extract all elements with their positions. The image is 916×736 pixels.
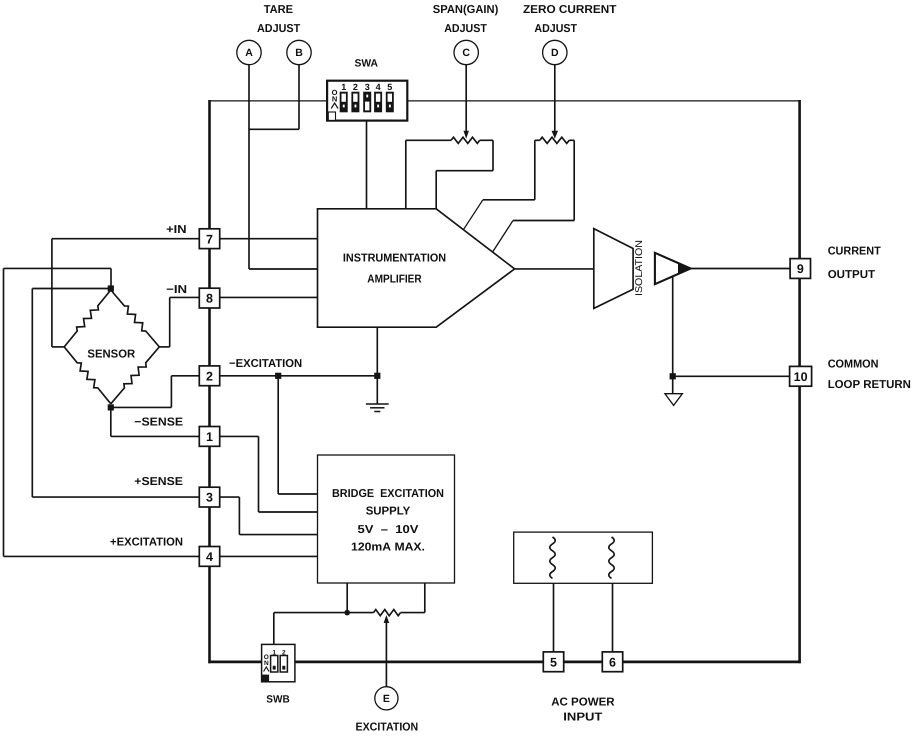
terminal 6 — [602, 652, 622, 672]
arrowhead on buffer tip — [678, 263, 692, 274]
svg-text:8: 8 — [206, 292, 213, 306]
junction bridge bottom node — [108, 404, 114, 410]
resistor bridge top-right arm — [111, 290, 160, 347]
svg-text:CURRENT: CURRENT — [828, 245, 881, 257]
wire buffer to terminal 9 — [691, 268, 790, 270]
potentiometer excitation adjust — [374, 610, 401, 616]
junction -excitation to supply — [275, 373, 281, 379]
wire junction to chassis ground — [672, 376, 674, 393]
terminal 8 — [199, 288, 219, 308]
svg-text:5: 5 — [550, 655, 557, 669]
inductor primary coil — [550, 537, 555, 578]
wire terminal 1 to supply input 2 — [219, 435, 258, 437]
resistor bridge bottom-right arm — [111, 347, 160, 404]
enclosure right border — [798, 100, 801, 663]
node E excitation adjust — [375, 687, 398, 710]
arrowhead wiper C — [463, 131, 469, 139]
ground under amplifier — [366, 403, 389, 405]
wire junction down to supply input 1 — [277, 376, 279, 494]
terminal 7 — [199, 229, 219, 249]
svg-text:COMMON: COMMON — [828, 359, 879, 371]
node A tare adjust — [237, 40, 261, 64]
svg-text:−IN: −IN — [166, 284, 187, 296]
svg-text:2: 2 — [206, 369, 213, 383]
svg-text:7: 7 — [206, 232, 213, 246]
junction bridge top node — [108, 285, 114, 291]
svg-text:SENSOR: SENSOR — [87, 349, 135, 361]
junction pot row — [344, 610, 350, 616]
wire amplifier output to isolation — [515, 268, 594, 270]
svg-text:D: D — [551, 47, 559, 59]
wire B from circle B joining wire A — [298, 65, 300, 130]
svg-text:B: B — [295, 47, 303, 59]
terminal 9 — [790, 259, 810, 279]
wire transformer to terminal 5 — [553, 583, 555, 652]
inductor secondary coil — [609, 537, 614, 578]
wire pot row — [274, 612, 374, 614]
isolation block — [594, 229, 633, 309]
svg-text:SPAN(GAIN): SPAN(GAIN) — [433, 4, 499, 16]
svg-text:LOOP RETURN: LOOP RETURN — [828, 379, 911, 391]
potentiometer zero adjust — [540, 137, 569, 143]
SWB dip switch — [262, 644, 295, 681]
svg-text:+IN: +IN — [166, 224, 186, 236]
svg-text:INSTRUMENTATION: INSTRUMENTATION — [343, 252, 446, 264]
svg-text:SUPPLY: SUPPLY — [366, 506, 411, 518]
arrowhead wiper D — [552, 131, 559, 139]
wire +EXCITATION bridge top node to terminal 4 — [110, 268, 112, 286]
wire C wiper — [465, 65, 467, 132]
svg-text:C: C — [462, 47, 470, 59]
arrowhead wiper E — [384, 615, 390, 623]
svg-text:1: 1 — [341, 82, 346, 92]
wire pot D right lead staircase to amp slant — [569, 139, 574, 141]
svg-text:ADJUST: ADJUST — [444, 23, 487, 35]
svg-text:+SENSE: +SENSE — [134, 476, 183, 488]
wire supply bottom right leg — [424, 583, 426, 613]
enclosure bottom border — [208, 661, 801, 664]
svg-text:3: 3 — [365, 82, 370, 92]
wire +SENSE bridge top node to terminal 3 — [32, 288, 111, 290]
svg-text:−EXCITATION: −EXCITATION — [229, 358, 302, 370]
svg-text:ISOLATION: ISOLATION — [634, 240, 645, 296]
wire pot D left lead staircase to amp slant — [535, 139, 540, 141]
svg-text:E: E — [383, 693, 390, 705]
svg-text:6: 6 — [609, 655, 616, 669]
svg-text:A: A — [245, 47, 253, 59]
svg-text:INPUT: INPUT — [563, 712, 602, 724]
terminal 3 — [199, 487, 219, 507]
wire transformer to terminal 6 — [612, 583, 614, 652]
svg-text:3: 3 — [206, 491, 213, 505]
wire terminal 7 to amplifier +in — [219, 238, 317, 240]
resistor bridge top-left arm — [64, 290, 111, 347]
svg-text:9: 9 — [797, 262, 804, 276]
wire junction to terminal 10 — [673, 375, 790, 377]
wire pot C left lead to amplifier top — [406, 139, 451, 141]
wire SWB drop — [273, 613, 275, 645]
wire -excitation from terminal 2 to ground junction — [219, 375, 377, 377]
terminal 10 — [790, 366, 812, 386]
wire A from circle A down to amplifier — [248, 65, 250, 269]
wire terminal 8 to amplifier -in — [219, 296, 317, 298]
wire -SENSE bridge bottom to terminal 1 — [110, 407, 112, 436]
svg-text:10: 10 — [794, 370, 808, 384]
svg-text:ADJUST: ADJUST — [534, 23, 577, 35]
svg-text:2: 2 — [353, 82, 358, 92]
wire terminal 3 to supply input 3 — [219, 496, 239, 498]
svg-text:SWB: SWB — [266, 694, 290, 706]
node B tare adjust — [287, 40, 311, 64]
enclosure left border — [208, 100, 211, 663]
svg-text:ADJUST: ADJUST — [257, 23, 300, 35]
svg-text:BRIDGE EXCITATION: BRIDGE EXCITATION — [332, 488, 444, 500]
svg-text:120mA MAX.: 120mA MAX. — [351, 542, 425, 554]
SWA dip switch — [327, 81, 407, 121]
svg-text:SWA: SWA — [354, 58, 378, 70]
svg-text:4: 4 — [206, 550, 213, 564]
chassis ground open triangle — [665, 394, 683, 406]
resistor bridge bottom-left arm — [64, 347, 111, 404]
svg-text:AC POWER: AC POWER — [551, 697, 615, 709]
svg-text:TARE: TARE — [264, 4, 294, 16]
wire terminal 2 to bridge bottom node — [171, 375, 199, 377]
transformer box — [514, 532, 653, 583]
wire pot C right lead staircase to amp corner — [480, 139, 493, 141]
svg-text:+EXCITATION: +EXCITATION — [110, 536, 183, 548]
svg-text:−SENSE: −SENSE — [134, 417, 183, 429]
junction common — [670, 373, 676, 379]
wire -IN terminal 8 to bridge right node — [170, 296, 200, 298]
node C span adjust — [454, 40, 478, 64]
svg-text:1: 1 — [206, 430, 213, 444]
node D zero adjust — [543, 40, 567, 64]
wire SWA to amplifier — [366, 120, 368, 209]
wire +IN terminal 7 to bridge left node — [52, 238, 200, 240]
potentiometer span adjust — [451, 137, 480, 143]
wire buffer bottom to common — [672, 277, 674, 377]
svg-text:AMPLIFIER: AMPLIFIER — [367, 274, 422, 286]
op-amp output buffer triangle — [655, 253, 691, 284]
svg-text:5: 5 — [387, 82, 392, 92]
terminal 1 — [199, 427, 219, 447]
svg-text:5V – 10V: 5V – 10V — [358, 524, 419, 536]
wire terminal 4 to supply input 4 — [219, 555, 317, 557]
svg-text:ZERO CURRENT: ZERO CURRENT — [523, 4, 616, 16]
bridge excitation supply block — [318, 455, 455, 583]
terminal 4 — [199, 547, 219, 567]
svg-text:OUTPUT: OUTPUT — [828, 269, 875, 281]
svg-text:EXCITATION: EXCITATION — [356, 722, 419, 734]
wire supply bottom left leg — [346, 583, 348, 613]
enclosure top border — [210, 100, 800, 102]
wire D wiper — [554, 65, 556, 132]
wire amplifier ground drop — [376, 327, 378, 403]
terminal 2 — [199, 366, 219, 386]
junction amplifier ground — [374, 373, 380, 379]
svg-text:N: N — [264, 660, 269, 667]
terminal 5 — [543, 652, 563, 672]
op-amp U1 instrumentation amplifier body — [318, 209, 515, 327]
svg-text:4: 4 — [376, 82, 381, 92]
